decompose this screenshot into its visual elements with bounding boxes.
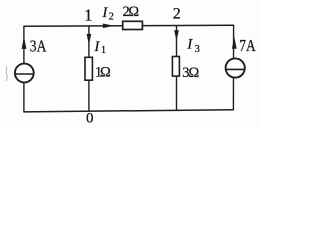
arrow I2 (right, on top wire) <box>103 24 114 29</box>
svg-text:I: I <box>186 37 193 53</box>
resistor 3ohm (right-middle, vertical) <box>172 57 179 77</box>
svg-text:2: 2 <box>173 5 181 22</box>
wire branch node2 to 0 <box>176 26 178 111</box>
arrow 3A current direction (up) <box>22 37 27 49</box>
svg-text:I: I <box>93 39 100 55</box>
wire middle branch node1 to 0 <box>88 26 90 112</box>
label I3 <box>186 37 200 55</box>
svg-text:3Ω: 3Ω <box>182 65 199 81</box>
wire left branch <box>23 26 25 113</box>
arrow I1 (down) <box>87 34 92 45</box>
svg-text:I: I <box>101 5 108 21</box>
resistor 1ohm (middle, vertical) <box>85 57 92 80</box>
svg-text:1Ω: 1Ω <box>95 65 111 81</box>
wire bottom: ground rail node 0 <box>24 110 234 112</box>
arrow I3 (down) <box>174 30 179 41</box>
svg-text:1: 1 <box>101 45 106 56</box>
svg-text:0: 0 <box>86 111 94 127</box>
current source I=3A (left) <box>15 64 34 83</box>
svg-text:2: 2 <box>109 12 114 23</box>
current source I=7A (right) <box>226 58 245 77</box>
resistor 2ohm (top, horizontal) <box>123 21 143 29</box>
label I2 <box>101 5 113 23</box>
svg-text:7A: 7A <box>239 36 256 55</box>
svg-text:1: 1 <box>84 5 93 24</box>
arrow 7A current direction (up) <box>232 37 237 49</box>
svg-text:2Ω: 2Ω <box>123 4 140 20</box>
wire right branch <box>232 25 234 111</box>
svg-text:3: 3 <box>195 44 200 55</box>
svg-text:3A: 3A <box>30 37 47 56</box>
scan smudge left edge <box>6 66 7 81</box>
label I1 <box>93 39 106 56</box>
wire top: node1-node2 rail <box>24 24 234 27</box>
